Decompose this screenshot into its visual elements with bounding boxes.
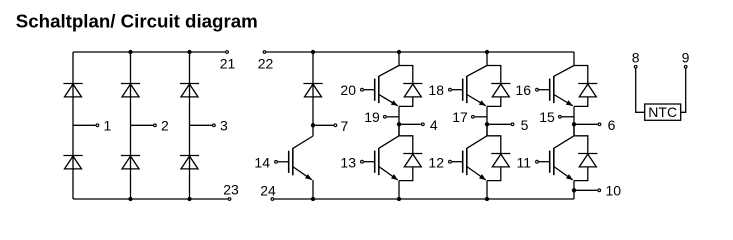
terminal 7: [334, 118, 348, 134]
terminal 14 label: [254, 155, 270, 171]
wire leg B bottom diode branch: [487, 136, 501, 154]
terminal 6: [598, 117, 615, 133]
wire bottom DC- rail (inverter): [274, 198, 574, 200]
wire leg C collector drop: [573, 52, 575, 66]
wire leg A emitter to rail: [398, 181, 400, 199]
wire leg C top diode return: [574, 97, 588, 107]
wire leg C bottom diode branch: [574, 136, 588, 154]
svg-text:22: 22: [258, 55, 274, 71]
wire leg B top diode return: [487, 97, 501, 107]
junction phase node 4: [397, 122, 401, 126]
wire phase 6 tap: [574, 123, 598, 125]
diode D61 freewheel top (leg C): [578, 84, 597, 97]
terminal 9: [682, 50, 690, 69]
wire leg B lower collector drop: [486, 124, 488, 136]
svg-text:19: 19: [364, 109, 380, 125]
wire leg A bottom diode return: [399, 167, 413, 181]
svg-text:13: 13: [340, 155, 356, 171]
terminal 21: [220, 51, 236, 72]
junction rectifier bottom rail leg 2: [128, 197, 132, 201]
wire leg C emitter to rail: [573, 181, 575, 199]
wire leg B top diode branch: [487, 66, 501, 84]
svg-text:24: 24: [260, 182, 276, 198]
junction phase node 6: [572, 122, 576, 126]
wire NTC right lead: [681, 69, 686, 113]
wire rectifier leg 3 vertical: [189, 52, 191, 199]
junction node 10: [572, 188, 576, 192]
junction leg B bottom rail: [485, 197, 489, 201]
wire aux emitter 15 tap: [562, 116, 574, 118]
diode D6 bottom (DC- to AC3): [180, 156, 199, 169]
junction phase node 5: [485, 122, 489, 126]
wire rectifier leg 1 vertical: [72, 52, 74, 199]
svg-text:NTC: NTC: [648, 104, 677, 120]
transistor IGBT 12 (bottom, leg B): [449, 136, 487, 180]
wire top DC+ rail (rectifier): [73, 51, 225, 53]
junction chopper top rail: [311, 50, 315, 54]
svg-text:17: 17: [452, 109, 468, 125]
wire leg C phase vertical: [573, 106, 575, 135]
wire top DC+ rail (inverter): [266, 51, 574, 53]
wire leg B collector drop: [486, 52, 488, 66]
svg-text:1: 1: [104, 118, 112, 134]
svg-text:7: 7: [341, 118, 349, 134]
svg-text:3: 3: [220, 118, 228, 134]
wire leg C top diode branch: [574, 66, 588, 84]
wire node 10 tap: [574, 189, 597, 191]
wire leg B phase vertical: [486, 106, 488, 135]
wire rectifier leg 2 vertical: [130, 52, 132, 199]
transistor IGBT 20 (top, leg A): [361, 66, 399, 106]
wire leg C lower collector drop: [573, 124, 575, 136]
junction leg B top rail: [485, 50, 489, 54]
terminal 4: [421, 117, 437, 133]
svg-text:23: 23: [223, 181, 239, 197]
terminal 17: [452, 109, 474, 125]
terminal 1: [96, 118, 111, 134]
wire leg A top diode branch: [399, 66, 413, 84]
diode D7 chopper (node 7 to DC+): [303, 84, 322, 97]
svg-text:2: 2: [161, 118, 169, 134]
junction rectifier bottom rail leg 3: [187, 197, 191, 201]
wire aux emitter 17 tap: [475, 116, 487, 118]
transistor IGBT 18 (top, leg B): [449, 66, 487, 106]
terminal 22: [258, 51, 274, 72]
wire AC node 1 tap: [73, 124, 95, 126]
wire leg B emitter to rail: [486, 181, 488, 199]
junction leg A bottom rail: [397, 197, 401, 201]
terminal 8: [632, 50, 640, 69]
svg-text:21: 21: [220, 55, 236, 71]
diode D1 top (AC1 to DC+): [63, 84, 82, 97]
terminal 2: [154, 118, 169, 134]
svg-text:6: 6: [608, 117, 616, 133]
svg-text:18: 18: [428, 82, 444, 98]
wire leg A bottom diode branch: [399, 136, 413, 154]
diode D51 freewheel top (leg B): [491, 84, 510, 97]
transistor IGBT 16 (top, leg C): [536, 66, 574, 106]
terminal 3: [213, 118, 228, 134]
svg-text:5: 5: [521, 117, 529, 133]
diode D52 freewheel bottom (leg B): [491, 154, 510, 167]
title text: Schaltplan/ Circuit diagram: [16, 11, 258, 32]
terminal 12 label: [428, 155, 444, 171]
terminal 11 label: [516, 155, 531, 171]
svg-text:12: 12: [428, 155, 444, 171]
wire chopper emitter to rail: [312, 180, 314, 199]
diode D42 freewheel bottom (leg A): [403, 154, 422, 167]
terminal 19: [364, 109, 386, 125]
wire AC node 2 tap: [131, 124, 153, 126]
wire phase 4 tap: [399, 123, 421, 125]
junction chopper bottom rail: [311, 197, 315, 201]
terminal 18 label: [428, 82, 444, 98]
diode D62 freewheel bottom (leg C): [578, 154, 597, 167]
terminal 13 label: [340, 155, 356, 171]
svg-text:16: 16: [515, 82, 531, 98]
terminal 15: [539, 109, 561, 125]
junction rectifier top rail leg 3: [187, 50, 191, 54]
svg-text:Schaltplan/ Circuit diagram: Schaltplan/ Circuit diagram: [16, 11, 258, 32]
junction node 7: [311, 123, 315, 127]
svg-text:9: 9: [682, 50, 690, 66]
diode D5 bottom (DC- to AC2): [121, 156, 140, 169]
junction leg A top rail: [397, 50, 401, 54]
terminal 20 label: [340, 82, 356, 98]
junction rectifier top rail leg 2: [128, 50, 132, 54]
svg-text:20: 20: [340, 82, 356, 98]
wire phase 5 tap: [487, 123, 511, 125]
svg-text:10: 10: [606, 182, 622, 198]
svg-text:14: 14: [254, 155, 270, 171]
terminal 16 label: [515, 82, 531, 98]
wire leg C bottom diode return: [574, 167, 588, 181]
wire node 7 tap: [313, 124, 333, 126]
terminal 24: [260, 182, 276, 200]
terminal 5: [511, 117, 528, 133]
transistor T7 (IGBT 14 brake chopper): [275, 136, 313, 180]
wire leg A lower collector drop: [398, 124, 400, 136]
svg-text:4: 4: [430, 117, 438, 133]
wire NTC left lead: [636, 69, 645, 113]
wire aux emitter 19 tap: [387, 116, 399, 118]
svg-text:11: 11: [516, 155, 531, 171]
terminal 10: [598, 182, 621, 198]
svg-text:15: 15: [539, 109, 555, 125]
diode D4 bottom (DC- to AC1): [63, 156, 82, 169]
diode D3 top (AC3 to DC+): [180, 84, 199, 97]
wire leg A top diode return: [399, 97, 413, 107]
wire chopper upper vertical: [312, 52, 314, 136]
wire AC node 3 tap: [190, 124, 212, 126]
diode D2 top (AC2 to DC+): [121, 84, 140, 97]
transistor IGBT 13 (bottom, leg A): [361, 136, 399, 180]
transistor IGBT 11 (bottom, leg C): [536, 136, 574, 180]
terminal 23: [223, 181, 239, 200]
wire bottom DC- rail (rectifier): [73, 198, 228, 200]
thermistor NTC: [645, 104, 681, 120]
wire leg A collector drop: [398, 52, 400, 66]
wire leg B bottom diode return: [487, 167, 501, 181]
diode D41 freewheel top (leg A): [403, 84, 422, 97]
svg-text:8: 8: [632, 50, 640, 66]
wire leg A phase vertical: [398, 106, 400, 135]
